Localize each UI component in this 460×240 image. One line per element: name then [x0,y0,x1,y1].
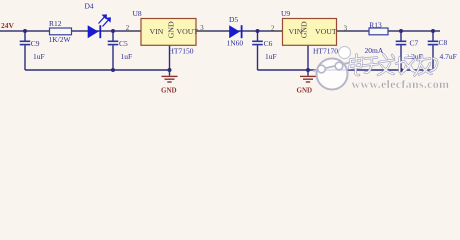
svg-text:3: 3 [200,25,204,32]
svg-text:2: 2 [126,25,130,32]
svg-text:VIN: VIN [150,27,164,36]
svg-text:20mA: 20mA [365,46,384,55]
svg-text:1uF: 1uF [265,52,277,61]
svg-text:U9: U9 [281,9,290,18]
svg-text:1N60: 1N60 [227,39,244,48]
svg-text:VOUT: VOUT [177,27,199,36]
svg-text:VOUT: VOUT [315,27,337,36]
svg-text:3: 3 [344,26,348,33]
svg-text:2: 2 [271,25,275,32]
svg-text:GND: GND [161,87,177,95]
svg-text:C7: C7 [410,38,419,47]
svg-text:1uF: 1uF [33,52,45,61]
svg-text:HT7170: HT7170 [313,46,338,55]
svg-text:D4: D4 [85,2,94,11]
svg-text:GND: GND [297,87,313,95]
svg-text:D5: D5 [229,15,238,24]
svg-text:R12: R12 [49,19,62,28]
svg-text:1uF: 1uF [121,52,133,61]
svg-text:GND: GND [300,21,309,38]
svg-text:www.elecfans.com: www.elecfans.com [352,77,450,91]
svg-text:24V: 24V [1,21,15,30]
svg-text:C9: C9 [31,39,40,48]
svg-text:R13: R13 [369,21,382,30]
svg-text:GND: GND [166,21,175,38]
svg-text:C6: C6 [264,39,273,48]
svg-text:HT7150: HT7150 [169,46,194,55]
svg-text:C5: C5 [119,39,128,48]
svg-text:4.7uF: 4.7uF [440,52,457,61]
svg-text:U8: U8 [133,9,142,18]
svg-text:C8: C8 [439,38,448,47]
svg-text:1K/2W: 1K/2W [49,35,72,44]
